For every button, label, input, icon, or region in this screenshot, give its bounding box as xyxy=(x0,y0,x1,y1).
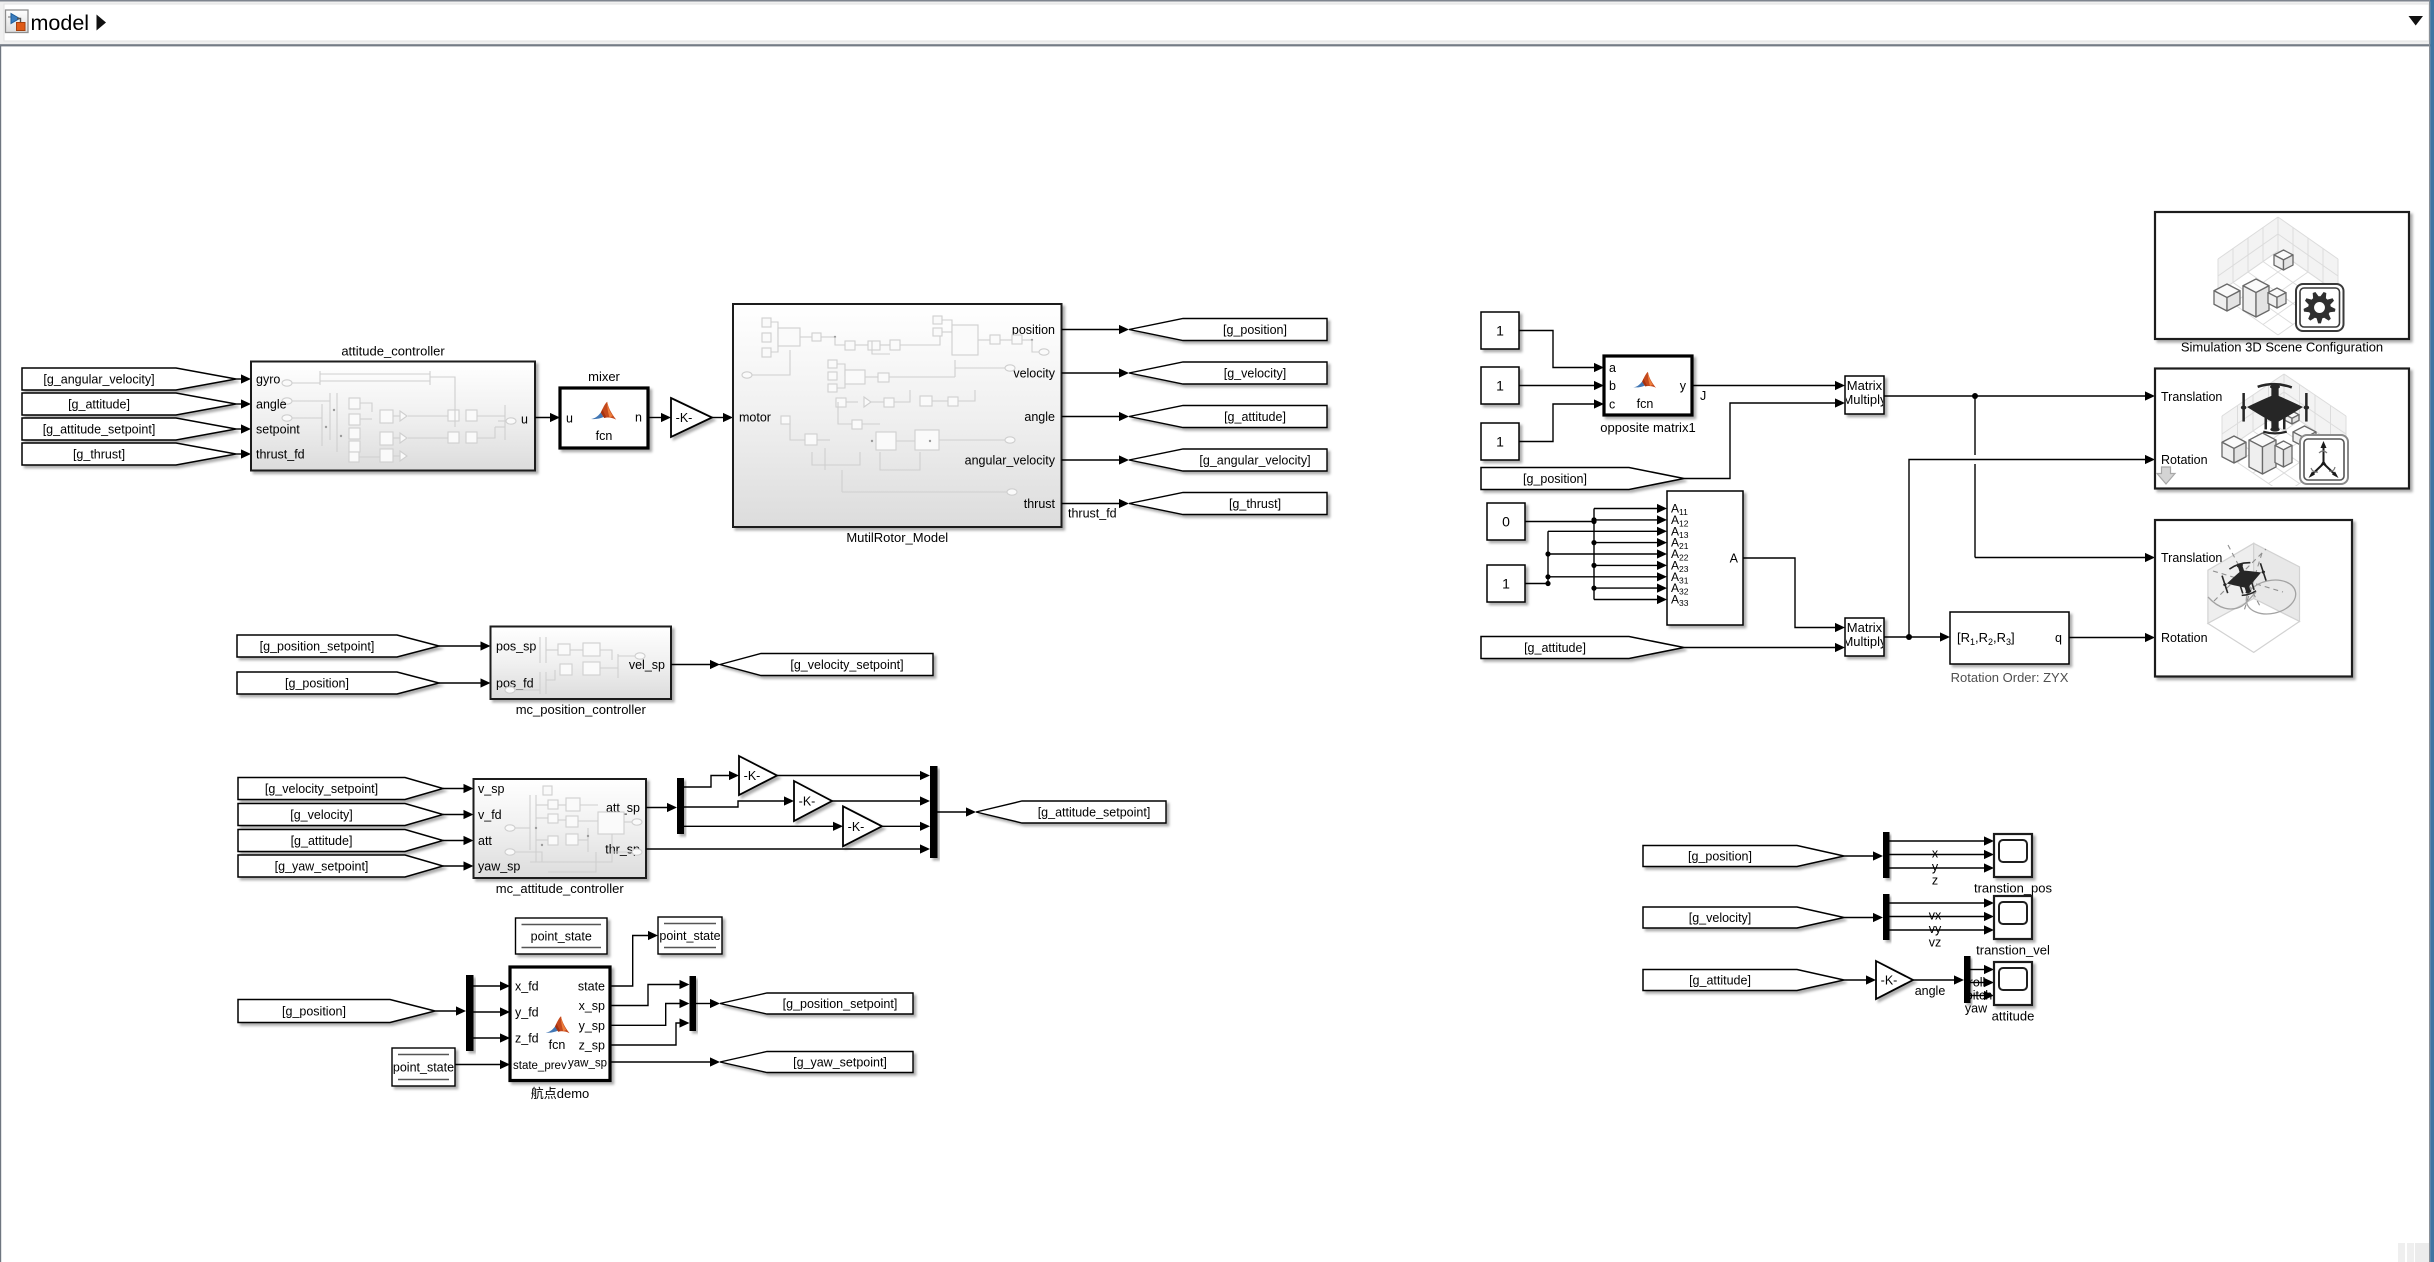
svg-text:z_fd: z_fd xyxy=(515,1032,539,1046)
svg-text:y_sp: y_sp xyxy=(579,1019,605,1033)
svg-text:att: att xyxy=(478,834,492,848)
svg-text:y: y xyxy=(1932,860,1939,874)
svg-text:transtion_vel: transtion_vel xyxy=(1976,943,2050,958)
svg-text:vz: vz xyxy=(1929,936,1942,950)
svg-text:MutilRotor_Model: MutilRotor_Model xyxy=(846,530,948,545)
svg-text:angle: angle xyxy=(1915,984,1946,998)
svg-text:velocity: velocity xyxy=(1013,367,1055,381)
svg-text:point_state: point_state xyxy=(393,1061,454,1075)
svg-text:[g_position]: [g_position] xyxy=(282,1005,346,1019)
svg-text:[g_thrust]: [g_thrust] xyxy=(1229,497,1281,511)
svg-text:[g_velocity]: [g_velocity] xyxy=(1689,911,1752,925)
svg-text:1: 1 xyxy=(1496,323,1504,339)
svg-text:mixer: mixer xyxy=(588,369,620,384)
svg-text:transtion_pos: transtion_pos xyxy=(1974,881,2053,896)
svg-text:[R1,R2,R3]: [R1,R2,R3] xyxy=(1957,630,2015,647)
svg-text:[g_position]: [g_position] xyxy=(1688,850,1752,864)
svg-text:x_sp: x_sp xyxy=(579,999,605,1013)
svg-text:v_sp: v_sp xyxy=(478,782,504,796)
svg-text:fcn: fcn xyxy=(549,1038,566,1052)
svg-text:[g_attitude]: [g_attitude] xyxy=(1689,974,1751,988)
svg-text:thrust_fd: thrust_fd xyxy=(1068,507,1117,521)
svg-text:z: z xyxy=(1932,874,1938,888)
svg-text:z_sp: z_sp xyxy=(579,1039,605,1053)
svg-text:point_state: point_state xyxy=(531,930,592,944)
svg-text:[g_velocity_setpoint]: [g_velocity_setpoint] xyxy=(790,658,903,672)
svg-text:[g_velocity]: [g_velocity] xyxy=(1224,367,1287,381)
svg-text:Simulation 3D Scene Configurat: Simulation 3D Scene Configuration xyxy=(2181,340,2383,355)
svg-text:vx: vx xyxy=(1929,909,1942,923)
svg-text:[g_attitude_setpoint]: [g_attitude_setpoint] xyxy=(43,423,156,437)
svg-text:-K-: -K- xyxy=(848,820,865,834)
svg-text:angular_velocity: angular_velocity xyxy=(965,454,1056,468)
svg-text:roll: roll xyxy=(1969,976,1986,990)
svg-text:[g_attitude]: [g_attitude] xyxy=(1224,410,1286,424)
svg-text:model: model xyxy=(31,11,90,35)
svg-text:-K-: -K- xyxy=(744,769,761,783)
svg-text:Translation: Translation xyxy=(2161,390,2222,404)
svg-text:yaw_sp: yaw_sp xyxy=(568,1058,607,1070)
svg-text:angle: angle xyxy=(256,398,287,412)
svg-text:point_state: point_state xyxy=(659,929,720,943)
svg-text:thrust_fd: thrust_fd xyxy=(256,448,305,462)
svg-text:[g_thrust]: [g_thrust] xyxy=(73,448,125,462)
svg-text:[g_attitude]: [g_attitude] xyxy=(291,834,353,848)
svg-text:y: y xyxy=(1680,379,1687,393)
svg-text:-K-: -K- xyxy=(676,411,693,425)
svg-text:u: u xyxy=(521,413,528,427)
svg-text:vel_sp: vel_sp xyxy=(629,658,665,672)
svg-text:yaw: yaw xyxy=(1965,1002,1988,1016)
svg-text:fcn: fcn xyxy=(1637,397,1654,411)
svg-text:setpoint: setpoint xyxy=(256,423,300,437)
svg-text:[g_velocity_setpoint]: [g_velocity_setpoint] xyxy=(265,782,378,796)
svg-text:mc_position_controller: mc_position_controller xyxy=(516,702,647,717)
svg-text:motor: motor xyxy=(739,411,771,425)
svg-text:x: x xyxy=(1932,847,1939,861)
svg-text:1: 1 xyxy=(1502,576,1510,592)
svg-text:fcn: fcn xyxy=(596,429,613,443)
svg-text:yaw_sp: yaw_sp xyxy=(478,860,520,874)
svg-text:v_fd: v_fd xyxy=(478,808,502,822)
svg-text:gyro: gyro xyxy=(256,373,280,387)
svg-text:[g_position]: [g_position] xyxy=(1223,323,1287,337)
svg-text:[g_position]: [g_position] xyxy=(285,677,349,691)
svg-text:u: u xyxy=(566,412,573,426)
svg-text:n: n xyxy=(635,411,642,425)
svg-text:[g_attitude_setpoint]: [g_attitude_setpoint] xyxy=(1038,806,1151,820)
svg-text:1: 1 xyxy=(1496,434,1504,450)
svg-text:mc_attitude_controller: mc_attitude_controller xyxy=(496,881,625,896)
svg-text:0: 0 xyxy=(1502,514,1510,530)
svg-text:[g_angular_velocity]: [g_angular_velocity] xyxy=(43,373,154,387)
svg-text:a: a xyxy=(1609,361,1616,375)
svg-text:y_fd: y_fd xyxy=(515,1006,539,1020)
svg-text:pitch: pitch xyxy=(1966,989,1992,1003)
svg-text:Multiply: Multiply xyxy=(1842,392,1887,407)
svg-text:-K-: -K- xyxy=(1881,974,1898,988)
svg-text:c: c xyxy=(1609,398,1615,412)
svg-text:thrust: thrust xyxy=(1024,497,1056,511)
svg-text:Matrix: Matrix xyxy=(1847,378,1883,393)
svg-text:[g_angular_velocity]: [g_angular_velocity] xyxy=(1199,454,1310,468)
svg-text:Multiply: Multiply xyxy=(1842,634,1887,649)
svg-text:1: 1 xyxy=(1496,378,1504,394)
svg-text:Rotation: Rotation xyxy=(2161,453,2208,467)
svg-text:[g_attitude]: [g_attitude] xyxy=(68,398,130,412)
svg-text:[g_position]: [g_position] xyxy=(1523,472,1587,486)
svg-text:pos_sp: pos_sp xyxy=(496,640,536,654)
svg-text:state: state xyxy=(578,980,605,994)
svg-text:q: q xyxy=(2055,631,2062,645)
svg-text:A: A xyxy=(1730,552,1739,566)
svg-text:opposite matrix1: opposite matrix1 xyxy=(1600,420,1695,435)
svg-text:attitude: attitude xyxy=(1992,1009,2035,1024)
svg-text:state_prev: state_prev xyxy=(513,1060,567,1072)
svg-text:J: J xyxy=(1700,389,1706,403)
svg-text:attitude_controller: attitude_controller xyxy=(341,344,445,359)
svg-text:Translation: Translation xyxy=(2161,551,2222,565)
svg-text:vy: vy xyxy=(1929,922,1942,936)
svg-text:[g_position_setpoint]: [g_position_setpoint] xyxy=(783,997,898,1011)
svg-text:[g_attitude]: [g_attitude] xyxy=(1524,641,1586,655)
svg-text:b: b xyxy=(1609,379,1616,393)
svg-text:x_fd: x_fd xyxy=(515,980,539,994)
svg-text:angle: angle xyxy=(1024,410,1055,424)
svg-text:-K-: -K- xyxy=(799,795,816,809)
svg-text:[g_velocity]: [g_velocity] xyxy=(290,808,353,822)
svg-text:航点demo: 航点demo xyxy=(531,1086,590,1101)
svg-text:Matrix: Matrix xyxy=(1847,620,1883,635)
svg-text:Rotation: Rotation xyxy=(2161,631,2208,645)
svg-text:Rotation Order: ZYX: Rotation Order: ZYX xyxy=(1951,670,2069,685)
svg-text:[g_yaw_setpoint]: [g_yaw_setpoint] xyxy=(793,1056,887,1070)
svg-text:[g_position_setpoint]: [g_position_setpoint] xyxy=(260,640,375,654)
svg-text:[g_yaw_setpoint]: [g_yaw_setpoint] xyxy=(275,860,369,874)
